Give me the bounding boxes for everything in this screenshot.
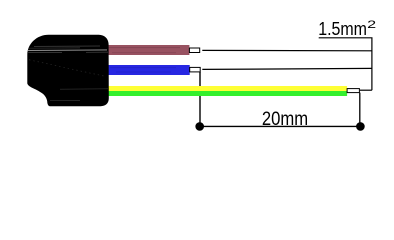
svg-text:20mm: 20mm [262, 109, 308, 130]
svg-text:1.5mm: 1.5mm [318, 19, 367, 39]
svg-text:2: 2 [367, 19, 376, 31]
